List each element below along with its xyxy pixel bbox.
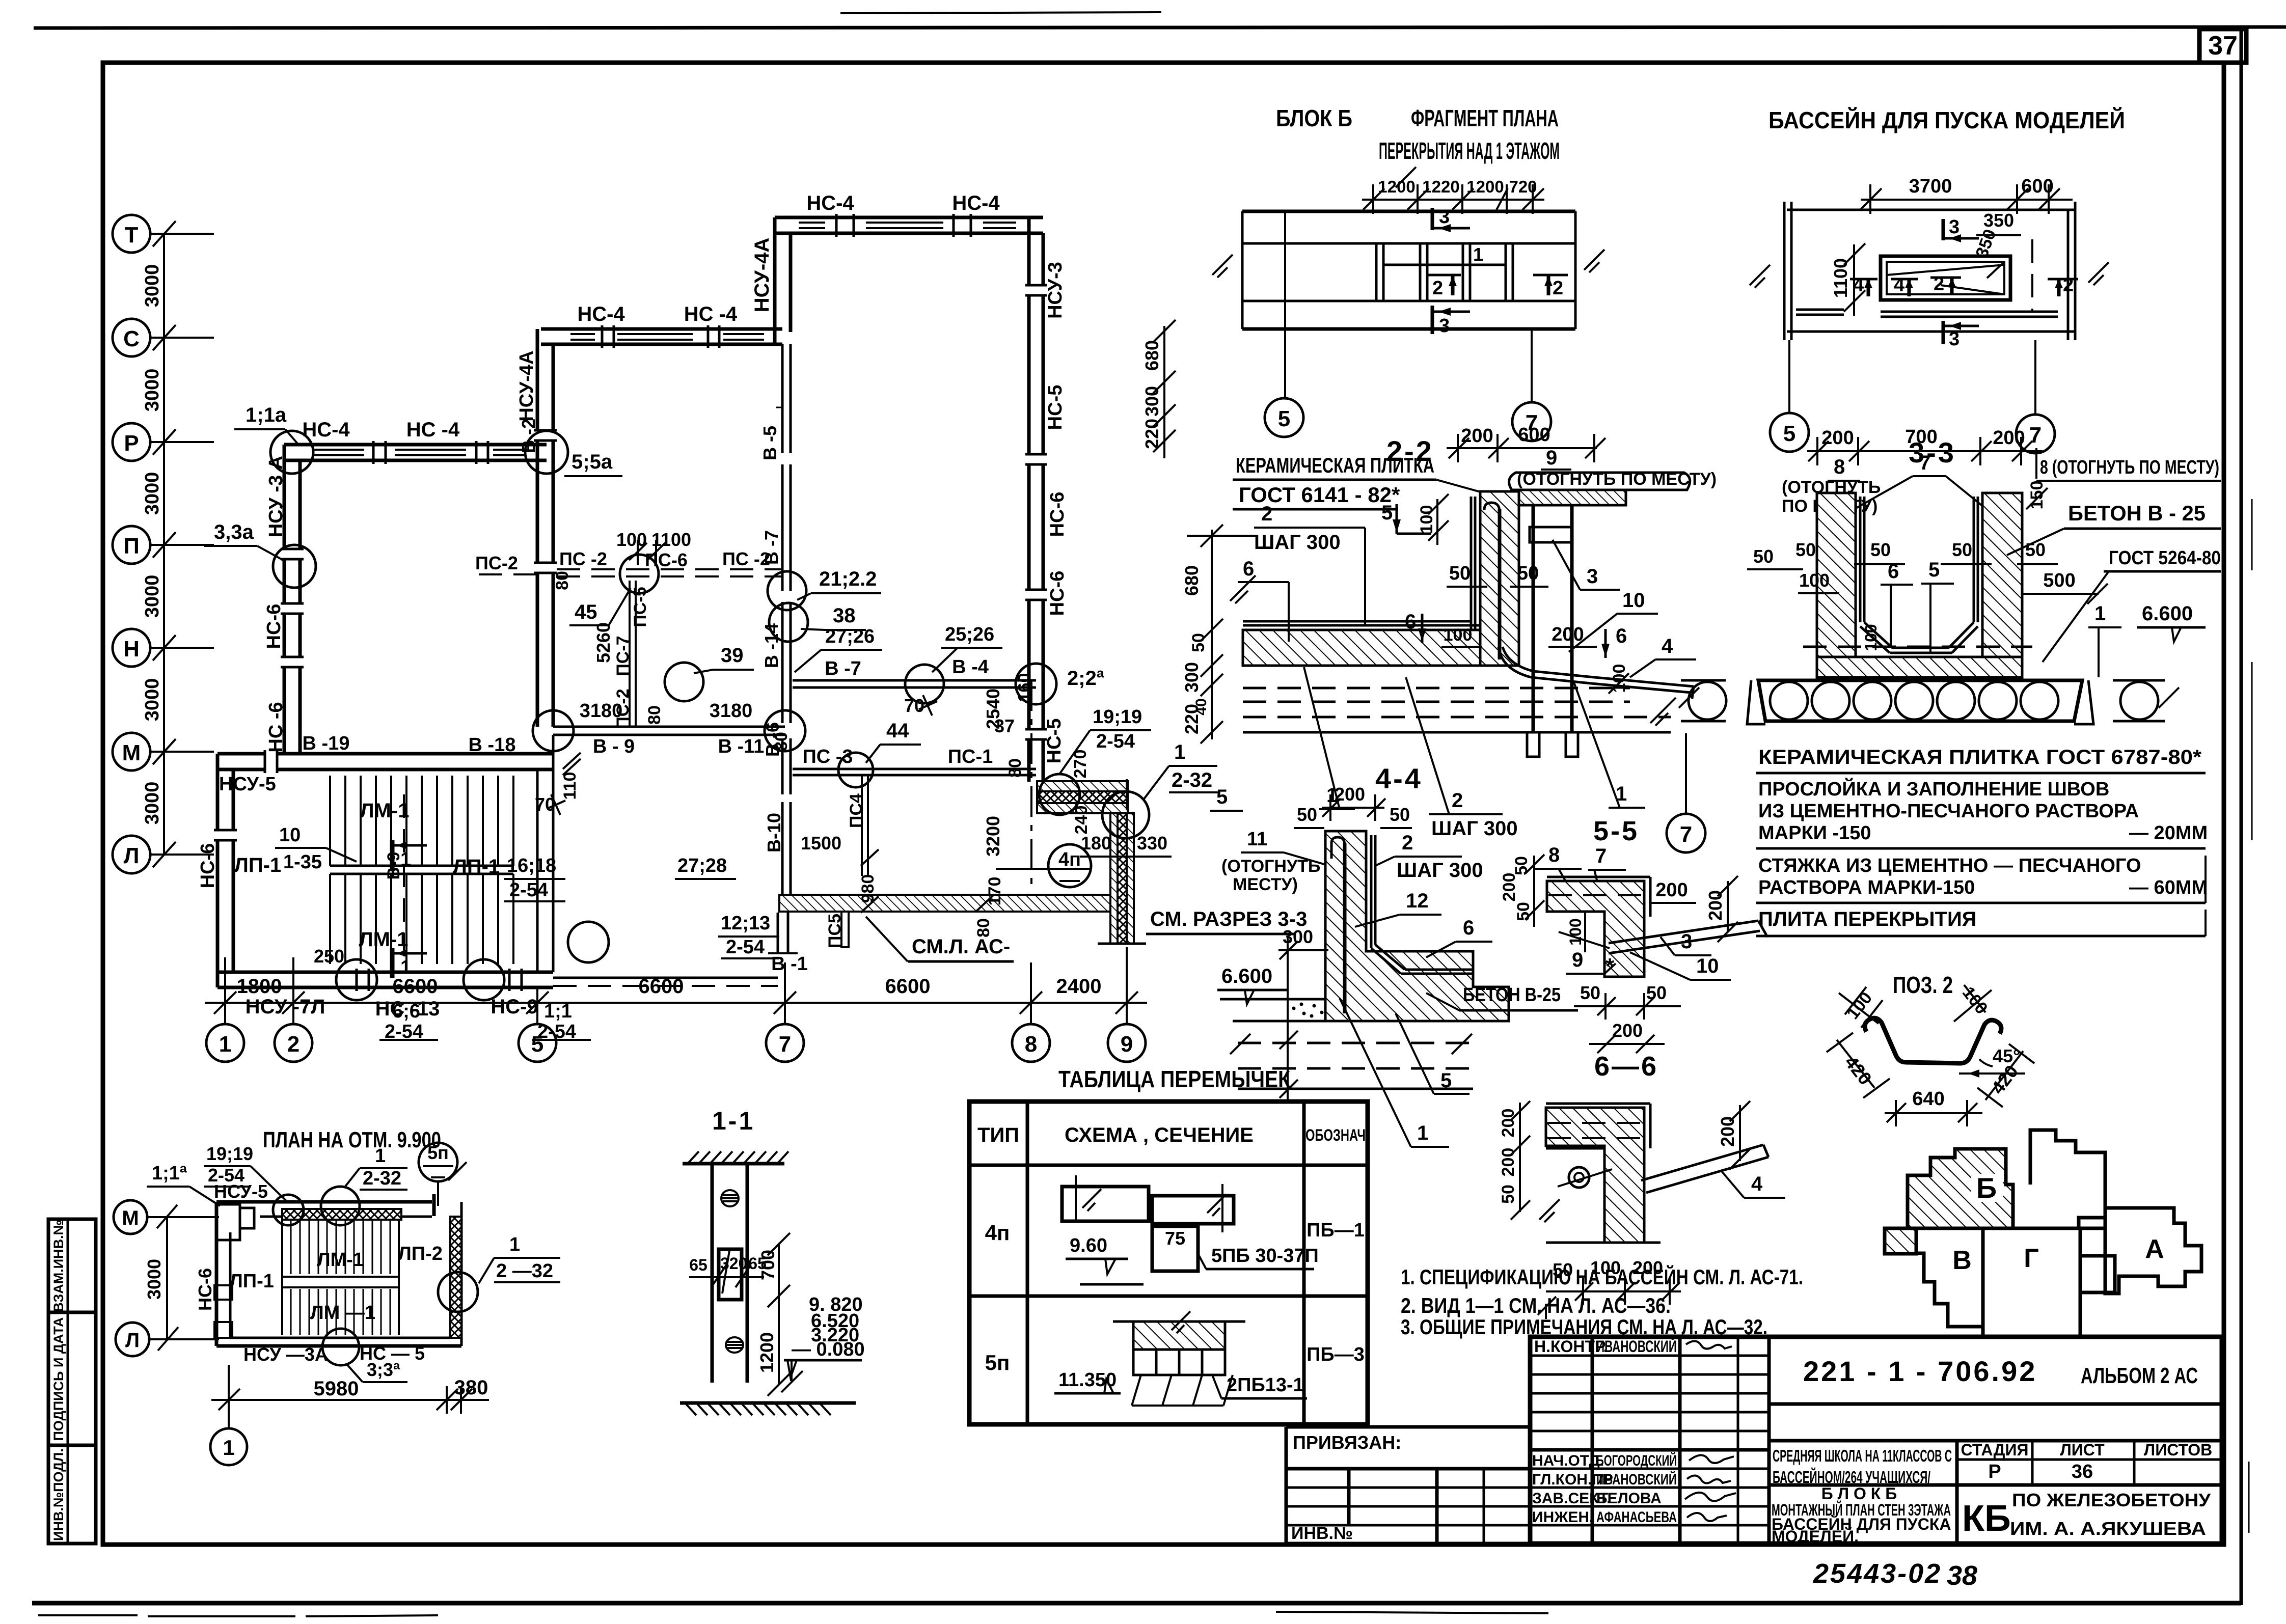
svg-text:380: 380: [454, 1377, 488, 1399]
svg-text:38: 38: [833, 604, 856, 627]
signature rows: [1530, 1355, 1769, 1357]
svg-text:2-54: 2-54: [208, 1165, 244, 1186]
svg-text:ПС -2: ПС -2: [559, 548, 607, 569]
svg-text:50: 50: [1514, 902, 1533, 921]
G_TXTBLK: [1756, 746, 2208, 936]
svg-text:1100: 1100: [651, 529, 691, 550]
svg-text:НС -4: НС -4: [406, 419, 460, 441]
svg-text:1800: 1800: [237, 975, 282, 998]
wall stub at С line: [773, 332, 777, 344]
svg-text:Г: Г: [2024, 1244, 2038, 1273]
svg-text:220: 220: [1181, 704, 1202, 734]
collar rect: [1530, 527, 1572, 542]
lintel scheme row2: hatched beam: [1133, 1322, 1225, 1350]
bent bar diag 5-5: [1609, 921, 1758, 943]
svg-text:А: А: [2145, 1234, 2164, 1264]
svg-text:200: 200: [1499, 1109, 1518, 1138]
svg-text:ГОСТ 5264-80: ГОСТ 5264-80: [2109, 547, 2221, 569]
G_LEFTSTAMP: [48, 1219, 96, 1544]
joint marks right wall: [1025, 285, 1047, 295]
column feet: [1527, 732, 1539, 757]
stair treads 9.900 upper: [291, 1221, 390, 1274]
stair flight treads lower: [330, 874, 513, 964]
svg-text:100: 100: [1799, 570, 1830, 591]
main stamp outline: [1530, 1337, 2222, 1544]
svg-text:9: 9: [1572, 949, 1583, 971]
axis circle 9: [1126, 1019, 1128, 1024]
svg-text:ПС-1: ПС-1: [948, 746, 993, 767]
fixing blobs: [721, 1190, 739, 1206]
drain pipe bent: [1503, 647, 1694, 686]
svg-text:27;26: 27;26: [825, 626, 875, 647]
svg-text:1200: 1200: [756, 1332, 777, 1373]
svg-text:3: 3: [1949, 328, 1960, 350]
svg-text:БАССЕЙН ДЛЯ ПУСКА МОДЕЛЕ: БАССЕЙН ДЛЯ ПУСКА МОДЕЛЕЙ: [1768, 107, 2125, 133]
axis circle 1: [224, 1019, 226, 1024]
svg-text:180: 180: [1081, 833, 1111, 854]
svg-text:ПЕРЕКРЫТИЯ НАД 1 ЭТАЖОМ: ПЕРЕКРЫТИЯ НАД 1 ЭТАЖОМ: [1379, 137, 1560, 164]
pool hatched wall vertical: [1110, 813, 1118, 944]
axis stems: [1284, 211, 1286, 398]
svg-text:ИНЖЕН.: ИНЖЕН.: [1532, 1509, 1593, 1526]
hollow core slab: [1758, 680, 2082, 721]
svg-text:1: 1: [509, 1234, 520, 1255]
svg-text:ОБОЗНАЧ: ОБОЗНАЧ: [1305, 1126, 1366, 1144]
svg-text:9: 9: [1121, 1032, 1133, 1057]
svg-text:В -7: В -7: [825, 658, 861, 679]
svg-text:НСУ -7Л: НСУ -7Л: [246, 996, 325, 1018]
svg-text:МАРКИ -150: МАРКИ -150: [1758, 822, 1871, 844]
svg-text:3000: 3000: [144, 1259, 165, 1300]
svg-text:3,3а: 3,3а: [214, 521, 254, 543]
block Б hatched: [1908, 1149, 2013, 1228]
svg-text:640: 640: [1912, 1088, 1944, 1110]
svg-text:2-54: 2-54: [537, 1021, 576, 1042]
G_KEYPLAN: [1885, 1130, 2201, 1337]
svg-text:2: 2: [1452, 789, 1463, 812]
tile lining slab: [1243, 624, 1480, 627]
svg-text:70: 70: [904, 695, 924, 716]
svg-text:6: 6: [1243, 558, 1254, 580]
svg-text:12;13: 12;13: [721, 913, 770, 934]
stadia list listov: [1955, 1441, 1959, 1544]
svg-text:БЕЛОВА: БЕЛОВА: [1596, 1490, 1662, 1507]
floor left of wall: [1220, 998, 1325, 1001]
svg-text:200: 200: [1705, 890, 1726, 921]
tile lining walls: [1859, 497, 1862, 622]
svg-text:44: 44: [886, 720, 909, 742]
svg-text:2ПБ13-1: 2ПБ13-1: [1227, 1374, 1304, 1396]
svg-text:5: 5: [1278, 406, 1290, 431]
svg-text:3: 3: [1439, 206, 1450, 228]
node circle 27;28: [765, 710, 805, 751]
node circle 19;19: [273, 1195, 304, 1225]
svg-text:1500: 1500: [801, 833, 841, 854]
right side dim chain 680/300/220: [1163, 326, 1165, 458]
wall НСУ-7А/НС-13 (stair bottom): [217, 971, 553, 974]
svg-text:1200: 1200: [1466, 177, 1504, 196]
wall В-7/В-4 (pool): [793, 679, 1036, 682]
node circle 16;18: [533, 710, 574, 751]
block В outline: [1916, 1228, 1983, 1327]
svg-text:7: 7: [1680, 822, 1692, 847]
section flag 3 top: [1431, 208, 1434, 230]
svg-text:4: 4: [1853, 274, 1864, 296]
axis stems up from dim line: [224, 957, 226, 1003]
svg-text:БЛОК Б: БЛОК Б: [1276, 105, 1352, 131]
svg-text:19;19: 19;19: [206, 1143, 253, 1164]
svg-text:БЕТОН В - 25: БЕТОН В - 25: [2068, 501, 2206, 525]
svg-text:50: 50: [1499, 1185, 1518, 1204]
right column: [1532, 505, 1535, 732]
node circle 1;1а: [270, 431, 313, 474]
break marks pool: [1750, 265, 1770, 285]
svg-text:6.600: 6.600: [1221, 965, 1272, 987]
svg-text:8 (ОТОГНУТЬ ПО МЕСТУ): 8 (ОТОГНУТЬ ПО МЕСТУ): [2040, 457, 2219, 478]
wall НС-4 top of pool hall (axis Т): [775, 216, 1043, 219]
svg-text:ШАГ 300: ШАГ 300: [1431, 817, 1518, 840]
svg-text:6—6: 6—6: [1594, 1051, 1658, 1082]
svg-text:221 - 1 - 706.92: 221 - 1 - 706.92: [1803, 1355, 2037, 1387]
bottom slab hatched 3-3: [1817, 657, 2022, 677]
svg-text:27;28: 27;28: [677, 855, 727, 876]
axis 9 lower dash: [1126, 947, 1128, 990]
svg-text:300: 300: [1141, 386, 1162, 417]
svg-text:НС -6: НС -6: [265, 702, 287, 752]
svg-text:Л: Л: [125, 1329, 140, 1352]
svg-text:50: 50: [1449, 563, 1471, 584]
svg-text:ИНВ.№: ИНВ.№: [1291, 1524, 1353, 1543]
svg-text:Т: Т: [125, 223, 139, 247]
svg-text:В -11: В -11: [718, 736, 765, 757]
svg-text:ПБ—3: ПБ—3: [1307, 1344, 1365, 1365]
node circle 38: [769, 603, 808, 642]
G_POOLPLAN: [1750, 107, 2125, 469]
arrow 2 mid: [1426, 274, 1461, 277]
svg-text:2: 2: [2063, 274, 2074, 296]
vertical dim line left of wall: [1287, 964, 1289, 1100]
dashed hidden lines below slab: [1243, 687, 1630, 690]
wall В-5/В-7 (axis 7, thin): [781, 344, 784, 453]
svg-text:25;26: 25;26: [945, 624, 994, 645]
axis circle 7 frag: [1512, 402, 1551, 441]
svg-text:ПС4: ПС4: [847, 793, 866, 828]
svg-text:2;2ª: 2;2ª: [1067, 667, 1104, 690]
floor hatch: [680, 1401, 856, 1405]
svg-text:НС-5: НС-5: [1044, 719, 1065, 764]
sheet bottom edge: [32, 1601, 2241, 1606]
slab hatched 5-5: [1547, 881, 1644, 977]
wall hatched: [1480, 491, 1519, 666]
G_PLANLBL: [197, 192, 1307, 1042]
svg-text:ПЛАН НА ОТМ. 9.900: ПЛАН НА ОТМ. 9.900: [263, 1127, 441, 1152]
svg-text:2: 2: [1432, 278, 1443, 299]
wall НСУ-3А/НС-6 (axis 2 left): [283, 445, 286, 754]
hatched wall right: [450, 1217, 461, 1338]
G_S66: [1499, 1051, 1785, 1319]
svg-text:200: 200: [1717, 1116, 1738, 1147]
svg-text:680: 680: [1141, 340, 1162, 371]
svg-text:3180: 3180: [710, 700, 753, 722]
svg-text:2: 2: [1553, 278, 1563, 299]
blocks row below: [1133, 1350, 1156, 1375]
sheet number box 37: [2199, 29, 2246, 63]
G_S44: [1217, 784, 1578, 1147]
dim line: [1362, 199, 1544, 201]
svg-text:2. ВИД 1—1 СМ. НА Л. АС—36.: 2. ВИД 1—1 СМ. НА Л. АС—36.: [1401, 1293, 1671, 1317]
pipe ring 6-6: [1569, 1167, 1589, 1188]
svg-text:5п: 5п: [427, 1142, 449, 1163]
svg-text:1220: 1220: [1422, 177, 1459, 196]
svg-text:2-32: 2-32: [363, 1168, 401, 1189]
svg-text:ТАБЛИЦА ПЕРЕМЫЧЕК: ТАБЛИЦА ПЕРЕМЫЧЕК: [1058, 1066, 1291, 1092]
axis Л circle 9.900: [116, 1323, 149, 1356]
svg-text:ИМ. А. А.ЯКУШЕВА: ИМ. А. А.ЯКУШЕВА: [2010, 1518, 2206, 1539]
svg-text:1: 1: [1174, 741, 1185, 763]
svg-text:5: 5: [1783, 421, 1795, 446]
svg-text:350: 350: [1983, 210, 2014, 231]
svg-text:ПРИВЯЗАН:: ПРИВЯЗАН:: [1293, 1432, 1401, 1453]
svg-text:ПОДПИСЬ И ДАТА: ПОДПИСЬ И ДАТА: [51, 1317, 66, 1441]
lintel table frame: [969, 1102, 1368, 1424]
svg-text:ЛМ —1: ЛМ —1: [310, 1302, 375, 1324]
svg-text:НС-6: НС-6: [1047, 492, 1068, 537]
svg-text:КЕРАМИЧЕСКАЯ ПЛИТКА: КЕРАМИЧЕСКАЯ ПЛИТКА: [1236, 453, 1434, 477]
svg-text:4п: 4п: [985, 1221, 1010, 1245]
svg-text:200: 200: [1500, 873, 1519, 902]
axis stems pool: [1788, 340, 1790, 414]
axis М circle 9.900: [114, 1200, 147, 1234]
block Г outline: [1983, 1228, 2080, 1337]
left dim chain s22: [1211, 530, 1213, 739]
svg-text:НС-4: НС-4: [302, 419, 350, 441]
sheet right edge: [2240, 28, 2243, 1605]
section flag 3 top: [1942, 219, 1945, 240]
wall hatched 4-4 L-shape: [1325, 831, 1509, 1021]
svg-text:10: 10: [1622, 589, 1645, 612]
section mark 1 lower: [390, 948, 395, 978]
svg-text:7: 7: [1595, 845, 1607, 867]
svg-text:ПС-5: ПС-5: [631, 587, 650, 627]
svg-text:9.60: 9.60: [1070, 1235, 1107, 1256]
G_S55: [1500, 816, 1767, 1053]
bent bar pos2: [1865, 1018, 2001, 1063]
axis 8 dashed line in pool: [1030, 680, 1032, 891]
axis Т: [113, 215, 150, 253]
svg-text:6: 6: [1616, 625, 1627, 647]
svg-text:160: 160: [1015, 673, 1034, 702]
section mark 1 upper: [390, 840, 395, 870]
svg-text:НСУ-3: НСУ-3: [1045, 262, 1066, 319]
stair treads 9.900 lower: [291, 1289, 390, 1335]
svg-text:ПС-2: ПС-2: [475, 553, 518, 573]
svg-text:5260: 5260: [593, 622, 614, 663]
svg-text:9: 9: [1546, 447, 1557, 469]
svg-text:БАССЕЙНОМ/264 УЧАЩИХСЯ/: БАССЕЙНОМ/264 УЧАЩИХСЯ/: [1773, 1467, 1930, 1487]
svg-text:ШАГ 300: ШАГ 300: [1254, 531, 1341, 554]
block А wing: [2105, 1208, 2201, 1293]
svg-text:6600: 6600: [885, 975, 931, 998]
node circle right 1 2-32: [438, 1272, 478, 1312]
svg-text:3: 3: [1587, 565, 1598, 588]
svg-text:ШАГ 300: ШАГ 300: [1397, 859, 1483, 882]
svg-text:100: 100: [1862, 624, 1880, 651]
node circle 1 2-32 top: [321, 1187, 360, 1225]
break diagonals s22: [1230, 575, 1256, 601]
svg-text:СХЕМА , СЕЧЕНИЕ: СХЕМА , СЕЧЕНИЕ: [1065, 1124, 1254, 1146]
partition ПС-7/ПС-5 vertical: [629, 581, 631, 727]
wall В-9/В-11: [553, 726, 785, 728]
svg-text:— 0.080: — 0.080: [792, 1339, 865, 1360]
svg-text:1: 1: [223, 1436, 234, 1460]
svg-text:ИВАНОВСКИЙ: ИВАНОВСКИЙ: [1596, 1471, 1677, 1488]
svg-text:3;3ª: 3;3ª: [367, 1359, 400, 1380]
svg-text:320: 320: [720, 1254, 747, 1273]
svg-text:ФРАГМЕНТ ПЛАНА: ФРАГМЕНТ ПЛАНА: [1411, 105, 1559, 131]
arrows 4 4 2: [1850, 278, 1877, 281]
svg-text:11: 11: [1247, 829, 1267, 850]
svg-text:3000: 3000: [142, 678, 163, 722]
circle 4п mark: [1048, 844, 1091, 887]
svg-text:НС-4: НС-4: [952, 192, 1000, 214]
svg-text:1-35: 1-35: [283, 851, 322, 873]
stair right jamb: [536, 769, 539, 972]
svg-text:ИВАНОВСКИЙ: ИВАНОВСКИЙ: [1596, 1337, 1677, 1356]
wall НС-4 top of left room (axis Р): [284, 443, 547, 447]
pool ledge lines: [1881, 311, 2058, 313]
axis circle 7: [784, 1019, 786, 1024]
svg-text:— 20ММ: — 20ММ: [2129, 822, 2208, 844]
partition ПС-4 vertical: [861, 775, 863, 876]
svg-text:330: 330: [1137, 833, 1167, 854]
svg-text:ПС-7: ПС-7: [613, 636, 633, 676]
svg-text:НС-6: НС-6: [197, 843, 219, 889]
svg-text:2400: 2400: [1056, 975, 1102, 998]
svg-text:5: 5: [1928, 559, 1940, 581]
svg-text:ЛП-1: ЛП-1: [453, 856, 500, 878]
svg-text:3000: 3000: [142, 472, 163, 515]
svg-text:БЕТОН В-25: БЕТОН В-25: [1463, 984, 1561, 1006]
top strip hatched: [1519, 490, 1626, 505]
left wall hatched 3-3: [1817, 493, 1856, 657]
svg-text:5: 5: [1440, 1069, 1452, 1092]
svg-text:ЛП-2: ЛП-2: [398, 1243, 443, 1264]
svg-text:8: 8: [1548, 844, 1560, 866]
svg-text:4: 4: [1751, 1173, 1763, 1195]
svg-text:3000: 3000: [142, 264, 163, 308]
svg-text:6;6: 6;6: [392, 1001, 420, 1022]
slab hatched: [1243, 630, 1480, 666]
svg-text:200: 200: [1821, 427, 1854, 449]
wall axis 5 (В-2/В-7): [536, 329, 539, 727]
svg-text:2-54: 2-54: [1096, 731, 1135, 752]
svg-text:80: 80: [772, 732, 791, 751]
partition ПС-2 dashed (middle room): [557, 568, 782, 570]
svg-text:2 —32: 2 —32: [496, 1260, 553, 1282]
axis Л: [113, 836, 150, 873]
svg-text:В -2: В -2: [518, 419, 539, 453]
wall ПС-3/ПС-1 (pool): [793, 768, 1036, 770]
svg-text:1: 1: [375, 1145, 386, 1167]
svg-text:ЛП-1: ЛП-1: [234, 854, 281, 876]
svg-text:БОГОРОДСКИЙ: БОГОРОДСКИЙ: [1596, 1452, 1677, 1469]
svg-text:Р: Р: [1988, 1461, 2001, 1482]
svg-text:100: 100: [1566, 918, 1585, 945]
svg-text:50: 50: [1517, 563, 1539, 584]
svg-text:10: 10: [1696, 955, 1719, 977]
wall НСУ-3/НС-5/НС-6 (axis 8 right): [1027, 217, 1031, 782]
svg-text:КЕРАМИЧЕСКАЯ ПЛИТКА ГОСТ 6787: КЕРАМИЧЕСКАЯ ПЛИТКА ГОСТ 6787-80*: [1758, 746, 2201, 768]
svg-text:65: 65: [689, 1256, 707, 1274]
vertical dim chain line: [163, 234, 165, 855]
svg-text:3000: 3000: [142, 369, 163, 412]
svg-text:НАЧ.ОТД.: НАЧ.ОТД.: [1532, 1452, 1604, 1469]
svg-text:50: 50: [1952, 539, 1972, 560]
section square 75: [1152, 1226, 1198, 1271]
svg-text:П: П: [123, 534, 140, 559]
axis circle 5 frag: [1265, 398, 1303, 437]
G_S22: [1181, 424, 1717, 852]
svg-text:19;19: 19;19: [1093, 706, 1142, 728]
svg-text:80: 80: [645, 705, 664, 725]
svg-text:5;5а: 5;5а: [571, 451, 613, 473]
svg-text:6: 6: [1463, 917, 1474, 939]
wall НСУ-4А (axis 7 upper): [773, 217, 777, 332]
svg-text:Р: Р: [124, 431, 139, 456]
svg-text:СРЕДНЯЯ ШКОЛА НА 11КЛАССОВ С: СРЕДНЯЯ ШКОЛА НА 11КЛАССОВ С: [1773, 1446, 1952, 1465]
svg-text:М: М: [122, 740, 141, 765]
dotted bedding: [1292, 1003, 1324, 1018]
circle on ПС-3: [838, 753, 873, 787]
svg-text:75: 75: [1165, 1228, 1185, 1249]
svg-text:2-32: 2-32: [1172, 769, 1212, 791]
svg-text:50: 50: [1512, 856, 1531, 875]
svg-text:НС-4: НС-4: [806, 192, 854, 214]
svg-text:1-1: 1-1: [712, 1107, 755, 1135]
svg-text:1: 1: [2094, 602, 2106, 625]
corner piece НСУ-5: [216, 1204, 240, 1240]
svg-text:— 60ММ: — 60ММ: [2129, 877, 2208, 898]
hatched strip top: [282, 1209, 401, 1220]
svg-text:1100: 1100: [1830, 258, 1851, 298]
svg-text:3200: 3200: [983, 816, 1003, 857]
tower outline: [2030, 1130, 2105, 1228]
svg-text:80: 80: [974, 918, 993, 938]
svg-text:3000: 3000: [142, 575, 163, 618]
svg-text:x: x: [1191, 793, 1202, 815]
svg-text:НСУ -3 А: НСУ -3 А: [265, 456, 287, 537]
bottom line 6-6: [1546, 1242, 1661, 1244]
svg-text:1. СПЕЦИФИКАЦИЮ НА БАССЕЙН: 1. СПЕЦИФИКАЦИЮ НА БАССЕЙН СМ. Л. АС-71.: [1401, 1264, 1803, 1289]
G_POS2: [1827, 972, 2034, 1126]
wall В-19/В-18 (axis М, stair top): [217, 752, 553, 756]
ceiling hatch: [683, 1162, 784, 1166]
svg-text:7: 7: [1919, 452, 1930, 474]
svg-text:ПС5: ПС5: [825, 914, 845, 948]
svg-text:НС-5: НС-5: [1045, 385, 1066, 430]
svg-text:М: М: [122, 1207, 139, 1229]
axis 1 circle 9.900: [228, 1414, 230, 1428]
svg-text:2: 2: [1934, 273, 1944, 295]
svg-text:ПЛИТА ПЕРЕКРЫТИЯ: ПЛИТА ПЕРЕКРЫТИЯ: [1758, 908, 1976, 930]
left stamp column: [48, 1219, 96, 1544]
svg-text:НСУ-4А: НСУ-4А: [751, 238, 773, 313]
pool hall outline: [1787, 209, 2075, 211]
svg-text:8: 8: [1025, 1032, 1037, 1057]
svg-text:7: 7: [779, 1032, 791, 1057]
svg-text:ПОЗ. 2: ПОЗ. 2: [1893, 972, 1953, 998]
node circle corner 1 2-32: [1102, 791, 1149, 838]
